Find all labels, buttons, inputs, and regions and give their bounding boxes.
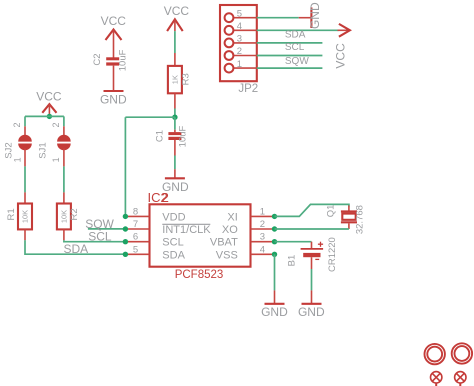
svg-text:B1: B1 <box>287 255 298 267</box>
svg-text:10uF: 10uF <box>117 49 128 71</box>
svg-text:SCL: SCL <box>162 237 183 249</box>
svg-text:GND: GND <box>261 305 288 319</box>
svg-text:SJ2: SJ2 <box>4 142 15 158</box>
svg-text:1: 1 <box>260 206 265 217</box>
svg-text:CR1220: CR1220 <box>327 237 338 272</box>
svg-text:GND: GND <box>308 2 322 29</box>
svg-text:SDA: SDA <box>162 249 185 261</box>
svg-text:10uF: 10uF <box>177 125 188 147</box>
svg-text:2: 2 <box>237 46 242 57</box>
svg-text:1: 1 <box>51 157 61 162</box>
svg-text:6: 6 <box>133 232 138 243</box>
svg-text:SCL: SCL <box>285 42 305 53</box>
svg-text:C1: C1 <box>154 130 165 142</box>
svg-text:Q1: Q1 <box>326 205 337 218</box>
svg-text:XO: XO <box>222 224 238 236</box>
svg-text:4: 4 <box>237 21 242 32</box>
svg-text:SDA: SDA <box>285 30 306 41</box>
svg-text:XI: XI <box>227 211 237 223</box>
svg-text:2: 2 <box>162 190 169 205</box>
svg-text:32.768: 32.768 <box>355 205 366 234</box>
svg-text:SDA: SDA <box>64 242 89 256</box>
svg-text:3: 3 <box>237 34 242 45</box>
svg-text:10K: 10K <box>20 210 29 223</box>
svg-text:VSS: VSS <box>216 249 238 261</box>
svg-text:SJ1: SJ1 <box>38 142 49 158</box>
svg-text:5: 5 <box>133 244 138 255</box>
svg-text:GND: GND <box>100 93 127 107</box>
svg-text:R2: R2 <box>69 208 80 220</box>
svg-text:R1: R1 <box>6 208 17 220</box>
svg-text:R3: R3 <box>181 73 192 85</box>
svg-text:SCL: SCL <box>88 230 112 244</box>
svg-text:8: 8 <box>133 206 138 217</box>
svg-text:2: 2 <box>12 122 22 127</box>
svg-text:VCC: VCC <box>101 14 127 28</box>
svg-text:2: 2 <box>260 219 265 230</box>
svg-text:VCC: VCC <box>164 4 190 18</box>
svg-text:2: 2 <box>51 122 61 127</box>
svg-text:5: 5 <box>237 8 242 19</box>
svg-text:SQW: SQW <box>285 56 309 67</box>
svg-text:7: 7 <box>133 219 138 230</box>
svg-text:4: 4 <box>260 244 265 255</box>
svg-text:C2: C2 <box>92 53 103 65</box>
svg-text:VDD: VDD <box>162 211 185 223</box>
svg-text:PCF8523: PCF8523 <box>175 269 224 281</box>
svg-text:3: 3 <box>260 232 265 243</box>
svg-text:VBAT: VBAT <box>210 237 238 249</box>
svg-text:GND: GND <box>298 305 325 319</box>
svg-text:VCC: VCC <box>334 43 348 69</box>
svg-text:1K: 1K <box>170 75 179 84</box>
svg-text:INT1/CLK: INT1/CLK <box>162 224 211 236</box>
svg-text:10K: 10K <box>59 210 68 223</box>
svg-text:1: 1 <box>237 59 242 70</box>
svg-text:JP2: JP2 <box>238 83 258 95</box>
svg-text:VCC: VCC <box>36 90 62 104</box>
